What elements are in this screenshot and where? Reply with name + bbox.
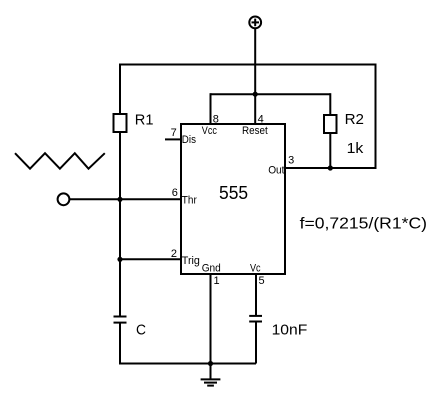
svg-text:555: 555 — [219, 183, 248, 203]
node Trig junction — [117, 257, 122, 262]
node Out junction — [328, 165, 333, 170]
wire R2 bottom lead — [329, 133, 331, 168]
svg-text:Reset: Reset — [242, 125, 268, 137]
svg-text:f=0,7215/(R1*C): f=0,7215/(R1*C) — [300, 215, 427, 232]
svg-text:1k: 1k — [347, 140, 364, 157]
resistor R1 — [114, 114, 127, 132]
wire power drop to junction and pin 4 Reset — [254, 28, 256, 124]
svg-text:3: 3 — [288, 155, 294, 167]
wire Out pin 3 run — [285, 167, 377, 169]
wire pin 5 Vc drop — [255, 274, 257, 316]
svg-text:8: 8 — [213, 114, 219, 126]
wire Trig pin 2 — [120, 258, 181, 260]
wire R2 top lead — [329, 93, 331, 115]
svg-text:C: C — [136, 322, 146, 339]
svg-text:Trig: Trig — [182, 255, 200, 267]
op-amp U1 555 IC body — [181, 124, 285, 274]
svg-text:Thr: Thr — [182, 195, 197, 207]
wire pin 8 drop — [210, 93, 212, 124]
svg-text:1: 1 — [214, 275, 220, 287]
svg-text:R2: R2 — [345, 111, 364, 128]
resistor R2 — [324, 115, 337, 133]
wire pin 1 Gnd drop — [210, 274, 212, 364]
svg-text:Dis: Dis — [182, 134, 197, 146]
svg-text:Vcc: Vcc — [202, 125, 218, 137]
svg-text:6: 6 — [172, 187, 178, 199]
wire left rail upper — [119, 64, 121, 116]
wire Vcc rail y=94 — [211, 93, 331, 95]
wire left rail lower and bottom run — [120, 323, 256, 364]
wire right rail — [375, 65, 377, 169]
svg-text:Vc: Vc — [250, 262, 261, 274]
svg-text:Gnd: Gnd — [202, 262, 221, 274]
svg-text:5: 5 — [259, 275, 265, 287]
capacitor 10nF — [249, 316, 262, 322]
svg-text:R1: R1 — [135, 112, 154, 129]
capacitor C — [114, 317, 127, 323]
wire 10nF bottom lead — [255, 322, 257, 364]
wire Dis pin 7 stub — [165, 138, 181, 140]
wire top rail — [119, 64, 377, 66]
wire terminal to Thr pin 6 — [70, 198, 181, 200]
node ground junction — [208, 361, 213, 366]
svg-text:2: 2 — [171, 248, 177, 260]
ground — [201, 364, 221, 386]
node Thr junction — [117, 197, 122, 202]
svg-text:10nF: 10nF — [272, 321, 308, 338]
svg-text:4: 4 — [258, 114, 264, 126]
terminal circle — [58, 193, 70, 205]
svg-text:Out: Out — [268, 165, 284, 177]
sawtooth waveform symbol — [15, 153, 105, 169]
svg-text:7: 7 — [171, 127, 177, 139]
power supply symbol (+) — [249, 17, 261, 29]
node Vcc junction — [253, 92, 258, 97]
wire left rail middle — [119, 132, 121, 316]
